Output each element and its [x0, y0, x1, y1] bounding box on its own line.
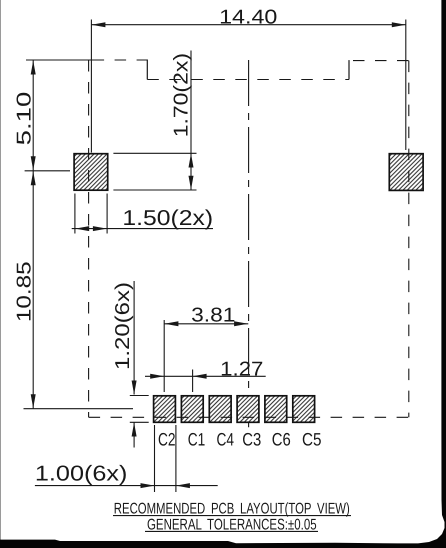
svg-text:C1: C1	[188, 430, 206, 450]
arrow 1.50 left	[75, 226, 89, 231]
pad P2 right	[389, 154, 423, 191]
arrow 1.27 right outside	[193, 374, 207, 379]
dim 1.50 extension line left	[74, 194, 76, 234]
svg-text:C3: C3	[242, 430, 261, 450]
outline top-left edge	[89, 59, 148, 61]
dim 3.81 dimension line	[164, 323, 248, 325]
pad C6	[265, 396, 287, 423]
scan artifact left edge	[0, 0, 2, 540]
arrow 1.50 right	[93, 226, 107, 231]
arrow 5.10 bottom	[31, 156, 36, 170]
svg-text:14.40: 14.40	[219, 7, 277, 29]
dim 14.40 extension line left	[90, 20, 92, 153]
component centerline	[248, 60, 250, 427]
outline right edge	[408, 61, 410, 418]
svg-text:10.85: 10.85	[13, 261, 35, 322]
dim 1.70 extension line bottom	[113, 189, 196, 191]
arrow 5.10 top	[31, 61, 36, 75]
pad P1 left	[74, 154, 108, 191]
pad C4	[209, 396, 231, 423]
svg-text:1.20(6x): 1.20(6x)	[112, 282, 134, 370]
svg-text:1.70(2x): 1.70(2x)	[171, 53, 193, 137]
dim 5.10 extension line bottom	[25, 170, 70, 172]
dim 1.20 tick bottom	[130, 421, 149, 423]
pad C2	[154, 396, 176, 423]
dim 1.00 extension line left	[154, 425, 156, 492]
dim 1.20 dimension line lower	[133, 423, 135, 448]
title line 1 underline	[113, 515, 351, 517]
arrow 1.27 left outside	[150, 374, 164, 379]
dim 5.10 dimension line	[32, 60, 34, 171]
arrow 3.81 right	[234, 321, 248, 326]
arrow 3.81 left	[164, 321, 178, 326]
svg-text:1.27: 1.27	[220, 358, 263, 380]
dim 1.70 extension line top	[113, 152, 196, 154]
outline top-right edge	[349, 60, 409, 62]
outline notch right step	[348, 60, 350, 79]
pad C1	[181, 396, 203, 423]
arrow 10.85 top	[31, 171, 36, 185]
arrow 14.40 right	[392, 22, 406, 27]
dim 1.00 dimension line	[35, 485, 218, 487]
outline bottom edge	[89, 416, 409, 418]
outline notch bottom edge	[147, 79, 349, 81]
outline notch left step	[146, 60, 148, 80]
svg-text:3.81: 3.81	[191, 304, 235, 326]
dim 10.85 dimension line	[32, 171, 34, 409]
arrow 1.00 left outside	[141, 483, 155, 488]
outline left edge	[88, 60, 90, 417]
svg-text:C5: C5	[302, 430, 322, 450]
dim 1.20 tick top	[130, 395, 149, 397]
dim 1.70 dimension line	[190, 51, 192, 191]
svg-text:1.50(2x): 1.50(2x)	[122, 206, 213, 230]
dim 1.00 extension line right	[175, 425, 177, 492]
dim 1.50 extension line right	[106, 194, 108, 234]
dim 14.40 extension line right	[405, 20, 407, 151]
arrow 1.70 bottom	[189, 176, 194, 190]
dim 14.40 dimension line	[91, 24, 405, 26]
svg-text:1.00(6x): 1.00(6x)	[35, 462, 128, 486]
arrow 1.70 top	[189, 154, 194, 168]
svg-text:C4: C4	[217, 430, 235, 450]
arrow 10.85 bottom	[31, 394, 36, 408]
title line 2 underline	[145, 530, 318, 532]
pad C5	[293, 396, 315, 423]
arrow 1.20 bottom	[132, 423, 137, 437]
svg-text:5.10: 5.10	[14, 92, 36, 146]
arrow 1.00 right outside	[176, 483, 190, 488]
arrow 1.20 top	[132, 381, 137, 395]
dim 5.10 extension line top	[26, 59, 103, 61]
dim 10.85 extension line bottom	[24, 408, 134, 410]
dim 1.50 dimension line	[72, 228, 213, 230]
dim 1.20 dimension line upper	[133, 281, 135, 395]
dim 1.27 extension line right	[192, 370, 194, 393]
svg-text:C2: C2	[158, 430, 176, 450]
dim 1.27 dimension line	[145, 375, 266, 377]
svg-text:C6: C6	[272, 430, 291, 450]
arrow 14.40 left	[91, 22, 105, 27]
dim 3.81 extension line left	[163, 320, 165, 392]
pad C3	[237, 396, 259, 423]
